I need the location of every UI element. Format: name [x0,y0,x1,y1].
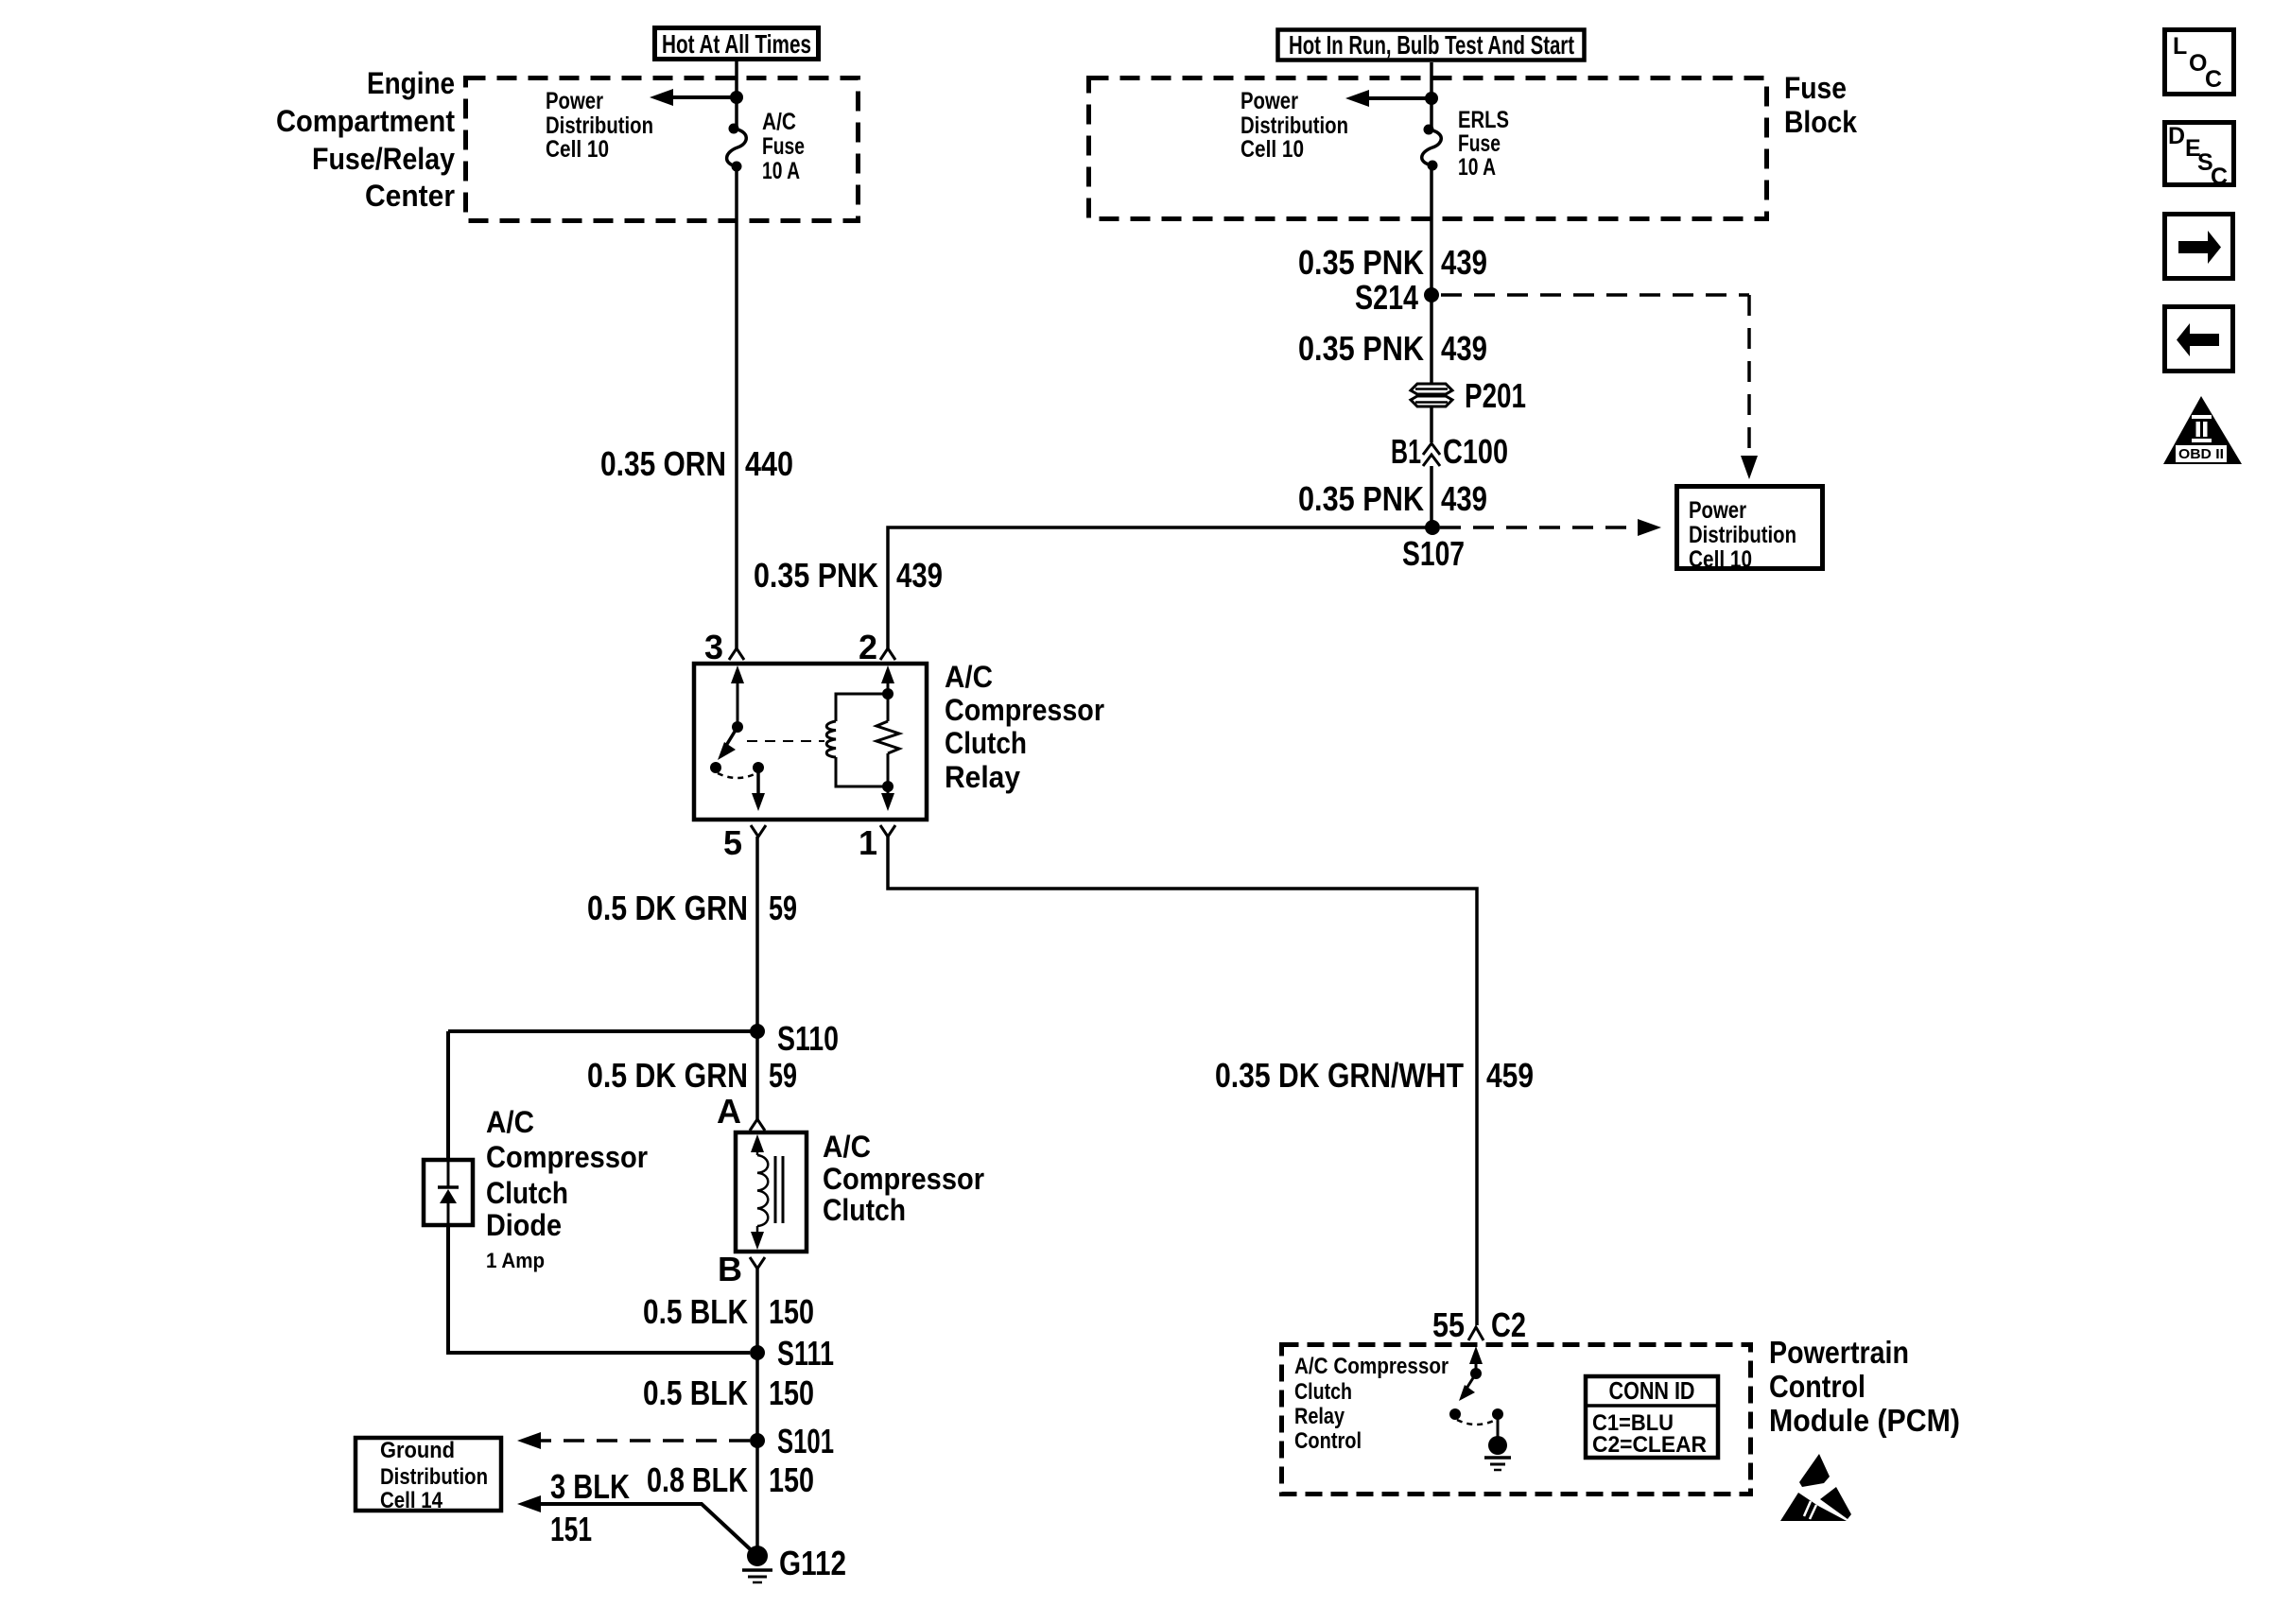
svg-text:439: 439 [1441,243,1487,282]
wire: arrow to Power Distribution Cell 10 [1358,96,1431,100]
icon: DESC box [2165,123,2234,191]
svg-text:Clutch: Clutch [1294,1379,1352,1405]
svg-text:Clutch: Clutch [945,726,1027,760]
wire: S107 to relay pin 2 [888,527,1432,648]
svg-text:A/C: A/C [762,109,796,135]
svg-text:439: 439 [896,556,943,595]
svg-text:Cell 14: Cell 14 [380,1488,443,1513]
wire: dashed from S214 to Power Distribution Cell 10 [1441,295,1749,465]
wire: dashed from S107 to Power Distribution Cell 10 [1440,526,1647,529]
icon: OBD II triangle [2163,396,2242,464]
svg-text:0.35 PNK: 0.35 PNK [1298,479,1424,518]
wire: 0.5 DK GRN 59 relay pin 5 to clutch pin A [755,837,759,1119]
label: Power Distribution Cell 10 (left) [546,88,653,163]
svg-text:B: B [718,1250,742,1288]
wire: 0.5 BLK 150 clutch pin B to S111 [755,1269,759,1353]
svg-text:0.35 ORN: 0.35 ORN [600,444,726,483]
wire: S110 branch to diode [448,1029,757,1033]
svg-text:Powertrain: Powertrain [1769,1335,1909,1370]
svg-text:Distribution: Distribution [1689,522,1796,548]
svg-text:Clutch: Clutch [486,1176,568,1210]
wire: 0.5 BLK 150 S111 to S101 [755,1353,759,1441]
wire: 3 BLK 151 to G112 [517,1495,541,1512]
svg-text:Fuse: Fuse [1784,71,1847,105]
node S111 [750,1345,765,1360]
node S101 [750,1433,765,1448]
svg-text:0.35 PNK: 0.35 PNK [754,556,878,595]
wire: P201 to C100 [1430,406,1433,442]
svg-text:S110: S110 [777,1019,839,1058]
svg-text:Cell 10: Cell 10 [1241,136,1304,163]
svg-text:1: 1 [859,823,877,862]
svg-text:Center: Center [365,179,455,213]
wire: 0.35 ORN 440 from fuse to relay pin 3 [735,166,738,648]
svg-text:Compartment: Compartment [276,104,455,138]
svg-text:439: 439 [1441,329,1487,368]
dashed box: Powertrain Control Module (PCM) [1282,1345,1751,1494]
svg-text:Distribution: Distribution [380,1464,488,1490]
svg-text:150: 150 [769,1292,814,1331]
label box "Hot In Run, Bulb Test And Start" [1278,30,1585,60]
svg-text:0.5 BLK: 0.5 BLK [643,1292,748,1331]
svg-text:Fuse: Fuse [762,133,805,160]
svg-text:Relay: Relay [945,760,1020,794]
node: junction dot on A/C fuse feed [730,91,743,104]
svg-text:Fuse/Relay: Fuse/Relay [312,142,455,176]
icon: LOC box [2165,30,2234,95]
wire label: 0.5 DK GRN 59 (above S110) [587,889,797,927]
svg-text:S214: S214 [1355,278,1418,317]
svg-text:1 Amp: 1 Amp [486,1249,545,1272]
wire: battery feed into A/C fuse [735,61,738,129]
svg-text:0.5 DK GRN: 0.5 DK GRN [587,1056,748,1095]
svg-text:3: 3 [704,628,723,666]
wire: relay pin 1 to PCM pin 55 (0.35 DK GRN/WHT 459) [888,837,1477,1325]
wire label: 0.35 PNK 439 (above S107) [1298,479,1487,518]
svg-text:Cell 10: Cell 10 [1689,546,1752,573]
relay coil suppression resistor [876,694,899,786]
svg-text:0.5 BLK: 0.5 BLK [643,1373,748,1412]
svg-text:440: 440 [745,444,793,483]
svg-text:59: 59 [769,1056,797,1095]
svg-text:150: 150 [769,1460,814,1499]
component name: Engine Compartment Fuse/Relay Center [276,66,455,213]
component name: A/C Compressor Clutch [823,1130,984,1227]
reference box: Power Distribution Cell 10 [1677,487,1823,574]
svg-text:Clutch: Clutch [823,1193,906,1227]
component name: A/C Compressor Clutch Diode 1 Amp [486,1105,648,1272]
svg-text:Block: Block [1784,105,1857,139]
svg-text:Hot In Run, Bulb Test And Star: Hot In Run, Bulb Test And Start [1289,30,1574,60]
svg-text:Control: Control [1769,1369,1865,1404]
wire: diode to S111 [448,1227,750,1353]
svg-text:S101: S101 [777,1422,834,1460]
node S110 [750,1024,765,1039]
svg-text:Hot At All Times: Hot At All Times [662,29,811,59]
fuse: ERLS Fuse 10 A [1422,125,1442,171]
svg-text:P201: P201 [1465,376,1526,415]
svg-text:Compressor: Compressor [945,693,1104,727]
wire: 0.35 PNK 439 C100 to S107 [1430,466,1433,527]
PCM internal driver: A/C Compressor Clutch Relay Control [1449,1346,1511,1470]
wire: 0.8 BLK 150 S101 to G112 [755,1441,759,1556]
svg-text:3 BLK: 3 BLK [550,1467,630,1506]
svg-text:10 A: 10 A [1458,154,1496,181]
ESD sensitivity symbol [1780,1454,1851,1521]
diode D1: A/C Compressor Clutch Diode [424,1158,473,1227]
relay switch: pin 3 contact arm [710,665,764,778]
svg-text:S107: S107 [1402,534,1465,573]
wire label: 0.5 DK GRN 59 (below S110) [587,1056,797,1095]
svg-text:CONN ID: CONN ID [1609,1376,1695,1405]
wire: arrow to Power Distribution Cell 10 [662,95,737,99]
wire label: 3 BLK 151 [550,1467,630,1548]
relay pin 1 internal arrow [881,786,894,811]
svg-text:Power: Power [546,88,603,114]
A/C Compressor Clutch component box [736,1132,807,1252]
component name: Powertrain Control Module (PCM) [1769,1335,1960,1438]
ground G112 [742,1546,772,1582]
svg-text:Cell 10: Cell 10 [546,136,609,163]
svg-text:OBD II: OBD II [2178,446,2224,462]
clutch coil symbol [751,1134,783,1250]
svg-text:Power: Power [1241,88,1298,114]
svg-text:C100: C100 [1443,432,1508,471]
relay internal dashed actuating link [747,740,824,742]
svg-text:150: 150 [769,1373,814,1412]
svg-text:G112: G112 [779,1544,846,1582]
pin 3 connector chevron [729,648,744,660]
label: Power Distribution Cell 10 (right) [1241,88,1348,163]
svg-text:59: 59 [769,889,797,927]
svg-text:C2=CLEAR: C2=CLEAR [1592,1432,1707,1458]
dashed box: Fuse Block [1089,78,1767,219]
wire: ignition feed into ERLS fuse [1430,62,1433,130]
svg-text:B1: B1 [1391,432,1421,471]
svg-text:10 A: 10 A [762,158,800,184]
svg-text:459: 459 [1486,1056,1534,1095]
wire: 0.35 PNK 439 fuse to S214 [1430,165,1433,295]
wire: 0.35 PNK 439 S214 to P201 [1430,295,1433,385]
wire: dashed S101 to Ground Distribution [541,1439,750,1443]
svg-text:C: C [2211,164,2228,190]
wire label: 0.35 ORN 440 [600,444,793,483]
wire label: 0.8 BLK 150 [647,1460,814,1499]
svg-text:151: 151 [550,1510,592,1548]
svg-text:Diode: Diode [486,1208,562,1242]
svg-text:Compressor: Compressor [486,1140,648,1174]
relay coil winding [826,665,894,792]
svg-text:S111: S111 [777,1334,834,1373]
fuse: A/C Fuse 10 A [727,124,747,172]
svg-text:A/C: A/C [486,1105,534,1139]
svg-text:Ground: Ground [380,1438,455,1463]
pin 55 C2 label and chevron [1432,1305,1526,1344]
wire label: 0.35 DK GRN/WHT 459 [1215,1056,1534,1095]
icon: right arrow box [2165,215,2233,279]
svg-text:ERLS: ERLS [1458,107,1509,133]
svg-text:Control: Control [1294,1428,1362,1454]
wire label: 0.5 BLK 150 (above S101) [643,1373,814,1412]
svg-text:2: 2 [859,628,877,666]
svg-text:Engine: Engine [367,66,455,100]
svg-text:Fuse: Fuse [1458,130,1501,157]
svg-text:0.35 PNK: 0.35 PNK [1298,243,1424,282]
svg-text:C2: C2 [1491,1305,1526,1344]
node S107 [1425,520,1440,535]
svg-text:D: D [2168,123,2185,149]
relay switch: pin 5 contact to box bottom [752,768,765,811]
svg-text:Distribution: Distribution [1241,112,1348,139]
CONN ID table [1584,1376,1720,1458]
svg-text:A/C Compressor: A/C Compressor [1294,1354,1449,1379]
wire label: 0.35 PNK 439 (above relay pin 2) [754,556,943,595]
wire label: 0.35 PNK 439 (above S214) [1298,243,1487,282]
svg-text:0.8 BLK: 0.8 BLK [647,1460,748,1499]
svg-text:Distribution: Distribution [546,112,653,139]
svg-text:Compressor: Compressor [823,1162,984,1196]
svg-text:Relay: Relay [1294,1404,1345,1429]
node S214 [1424,287,1439,302]
node: junction dot on ERLS fuse feed [1425,92,1438,105]
svg-text:L: L [2173,33,2187,60]
pin 2 connector chevron [880,648,895,660]
connector P201 (grommet symbol) [1411,384,1452,406]
svg-text:Power: Power [1689,497,1746,524]
svg-text:439: 439 [1441,479,1487,518]
value label: A/C Fuse 10 A [762,109,805,184]
wire label: 0.35 PNK 439 (above P201) [1298,329,1487,368]
svg-text:5: 5 [723,823,742,862]
svg-text:A/C: A/C [823,1130,871,1164]
connector C100 pin B1 (double chevron) [1423,443,1440,466]
svg-text:C: C [2205,66,2222,93]
svg-text:A: A [717,1092,741,1131]
reference box: Ground Distribution Cell 14 [356,1438,501,1513]
pin 1 connector chevron [880,825,895,837]
svg-text:55: 55 [1432,1305,1465,1344]
dashed box: Engine Compartment Fuse/Relay Center [466,78,859,221]
pin 5 connector chevron [751,825,766,837]
component name: Fuse Block [1784,71,1857,139]
wire label: 0.5 BLK 150 (above S111) [643,1292,814,1331]
label box "Hot At All Times" [655,28,819,60]
svg-text:A/C: A/C [945,660,993,694]
svg-text:0.35 PNK: 0.35 PNK [1298,329,1424,368]
svg-text:Module (PCM): Module (PCM) [1769,1403,1960,1438]
svg-text:0.5 DK GRN: 0.5 DK GRN [587,889,748,927]
component name: A/C Compressor Clutch Relay [945,660,1104,794]
relay box: A/C Compressor Clutch Relay [694,664,927,820]
icon: left arrow box [2165,307,2233,371]
value label: ERLS Fuse 10 A [1458,107,1509,181]
svg-text:0.35 DK GRN/WHT: 0.35 DK GRN/WHT [1215,1056,1464,1095]
label: A/C Compressor Clutch Relay Control [1294,1354,1449,1454]
